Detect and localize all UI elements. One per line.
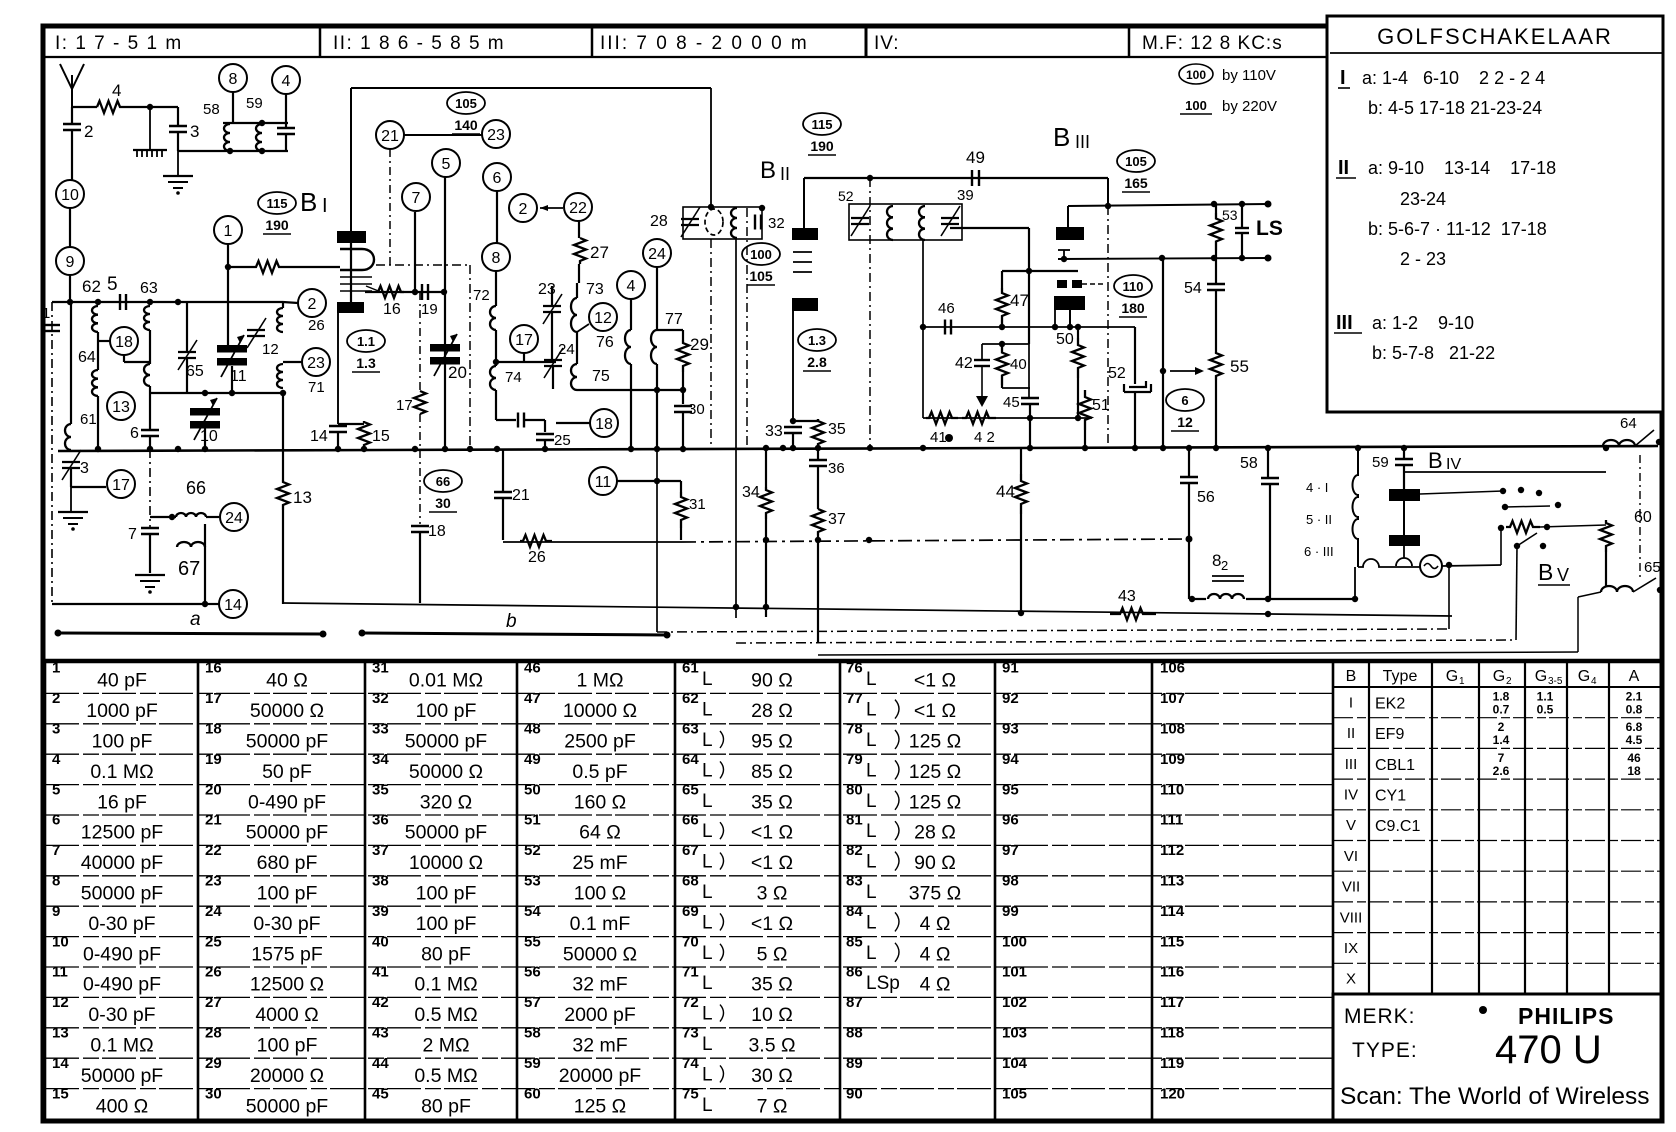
coil 77	[651, 330, 657, 364]
table column divider 0	[44, 663, 47, 1119]
bus junction	[1265, 445, 1271, 451]
svg-text:72: 72	[473, 287, 490, 304]
svg-text:400 Ω: 400 Ω	[96, 1095, 149, 1117]
svg-text:4 2: 4 2	[974, 429, 995, 446]
wire x1516 up	[1516, 546, 1517, 640]
bus junction	[680, 446, 686, 452]
wire x818	[817, 449, 819, 460]
svg-text:72: 72	[682, 994, 699, 1011]
svg-text:46: 46	[1627, 751, 1641, 765]
svg-text:L: L	[702, 1004, 713, 1025]
bus junction	[1186, 445, 1192, 451]
svg-text:55: 55	[1230, 357, 1249, 376]
variable cap 65	[178, 340, 197, 370]
wire y420	[496, 419, 516, 421]
tube BIII grid rects	[1057, 280, 1067, 288]
svg-text:14: 14	[224, 597, 242, 614]
line L1 y540	[503, 541, 682, 543]
svg-text:G: G	[1446, 668, 1458, 685]
svg-text:85: 85	[846, 933, 863, 950]
svg-text:78: 78	[846, 721, 863, 738]
svg-text:97: 97	[1002, 842, 1019, 859]
svg-text:50: 50	[524, 781, 541, 798]
svg-text:0-490 pF: 0-490 pF	[248, 791, 326, 813]
terminal 11	[589, 467, 617, 495]
svg-text:33: 33	[765, 423, 783, 440]
bus junction	[1132, 445, 1138, 451]
svg-text:50000 Ω: 50000 Ω	[563, 943, 637, 965]
svg-text:74: 74	[505, 369, 522, 386]
wire cap45 bus	[1029, 418, 1031, 449]
svg-text:L: L	[866, 730, 877, 751]
coil ift1	[705, 209, 723, 235]
svg-text:125 Ω: 125 Ω	[574, 1095, 627, 1117]
node y362	[493, 359, 499, 365]
svg-text:7: 7	[52, 842, 60, 859]
wire cap59	[1403, 446, 1405, 459]
svg-text:L: L	[702, 669, 713, 690]
svg-text:190: 190	[810, 138, 834, 154]
svg-text:30: 30	[688, 401, 705, 418]
bus junction	[920, 445, 926, 451]
bus junction	[202, 446, 208, 452]
line L6	[818, 652, 1578, 655]
svg-text:I: I	[1349, 694, 1353, 711]
svg-text:5: 5	[52, 781, 60, 798]
capacitor 6	[141, 430, 159, 436]
svg-text:75: 75	[682, 1085, 699, 1102]
svg-text:16 pF: 16 pF	[97, 791, 147, 813]
node coil59 bottom	[259, 148, 265, 154]
wire r55 dn	[1215, 380, 1217, 447]
wire y604 left	[52, 603, 205, 605]
capacitor 46	[945, 320, 951, 335]
wire to BI grid	[283, 266, 340, 268]
svg-text:B: B	[1053, 122, 1070, 152]
svg-text:4: 4	[282, 73, 291, 90]
svg-text:L: L	[702, 1064, 713, 1085]
svg-text:B: B	[1538, 559, 1553, 585]
svg-text:17: 17	[112, 477, 130, 494]
svg-text:0.7: 0.7	[1493, 702, 1510, 716]
svg-text:CY1: CY1	[1375, 787, 1406, 804]
table row line 12	[45, 1027, 1333, 1029]
svg-text:36: 36	[828, 460, 845, 477]
svg-text:0-490 pF: 0-490 pF	[83, 943, 161, 965]
svg-text:4.5: 4.5	[1626, 733, 1643, 747]
coil ift2 a	[887, 206, 893, 240]
node L2 a	[733, 604, 739, 610]
node y393 b	[229, 390, 235, 396]
variable cap 24b	[544, 348, 563, 378]
wire lamp right	[1442, 565, 1501, 566]
svg-text:0.01 MΩ: 0.01 MΩ	[409, 670, 483, 692]
svg-text:37: 37	[828, 511, 846, 528]
svg-text:40000 pF: 40000 pF	[81, 852, 163, 874]
svg-text:50000 pF: 50000 pF	[81, 883, 163, 905]
dash osc rail	[419, 292, 421, 391]
tube BII grid2 rect	[792, 298, 818, 311]
svg-text:32 mF: 32 mF	[572, 1035, 627, 1057]
tube table header line	[1333, 686, 1661, 688]
svg-text:30 Ω: 30 Ω	[751, 1065, 793, 1087]
tube BI anode	[337, 231, 366, 243]
wire cap18 down	[419, 532, 421, 603]
wire y418	[923, 417, 1092, 419]
svg-text:4 Ω: 4 Ω	[920, 974, 951, 996]
wire box y344	[982, 343, 1029, 345]
bus junction	[1213, 445, 1219, 451]
capacitor 32	[755, 215, 761, 230]
svg-text:1.1: 1.1	[357, 334, 375, 349]
terminal 24 mid	[643, 239, 671, 267]
table column divider 2	[364, 663, 367, 1119]
svg-text:119: 119	[1160, 1055, 1184, 1072]
table row line 3	[45, 753, 1333, 755]
node y393 a	[202, 390, 208, 396]
svg-text:42: 42	[955, 355, 973, 372]
dash x1108 dn	[1107, 206, 1109, 447]
node y205 c	[1265, 201, 1272, 208]
svg-text:140: 140	[454, 117, 478, 133]
wire coil61 top	[70, 302, 72, 424]
table row line 5	[45, 814, 1333, 816]
svg-text:7: 7	[1498, 751, 1505, 765]
capacitor 14	[329, 426, 347, 432]
svg-text:49: 49	[966, 148, 985, 167]
line L4 dash	[657, 629, 1449, 632]
svg-text:B: B	[1346, 668, 1357, 685]
bus junction	[147, 446, 153, 452]
svg-text:1.1: 1.1	[1537, 689, 1554, 703]
wire r47 dn	[1001, 324, 1003, 327]
coil 58	[224, 124, 230, 151]
svg-text:7: 7	[412, 190, 421, 207]
svg-text:50: 50	[1056, 331, 1074, 348]
resistor 34	[760, 487, 772, 519]
resistor 60	[1600, 520, 1612, 552]
terminal 24 left	[220, 503, 248, 531]
node coil66	[169, 514, 175, 520]
node y418 b	[1075, 415, 1081, 421]
svg-text:2: 2	[519, 201, 528, 218]
svg-text:71: 71	[682, 964, 699, 981]
node ift1 top	[708, 204, 714, 210]
tube table column 5	[1608, 663, 1610, 994]
svg-text:18: 18	[205, 721, 222, 738]
bus junction	[1401, 445, 1407, 451]
svg-text:2.8: 2.8	[807, 354, 827, 370]
header divider IV/MF	[1128, 28, 1131, 57]
svg-text:15: 15	[372, 428, 390, 445]
svg-text:<1 Ω: <1 Ω	[751, 822, 793, 844]
wire transformer bottom	[1358, 559, 1420, 567]
svg-text:4 Ω: 4 Ω	[920, 943, 951, 965]
svg-text:46: 46	[524, 660, 541, 677]
svg-text:82: 82	[846, 842, 863, 859]
svg-text:48: 48	[524, 721, 541, 738]
svg-text:20: 20	[205, 781, 222, 798]
tube BI cathode D	[340, 249, 374, 270]
svg-text:L: L	[866, 912, 877, 933]
svg-text:58: 58	[1240, 455, 1258, 472]
svg-text:45: 45	[372, 1085, 389, 1102]
svg-text:95: 95	[1002, 781, 1019, 798]
svg-text:V: V	[1346, 817, 1356, 834]
svg-text:83: 83	[846, 873, 863, 890]
wire cap21	[502, 449, 504, 492]
bus junction	[335, 446, 341, 452]
svg-text:19: 19	[205, 751, 222, 768]
capacitor 7	[141, 528, 159, 534]
resistor 41h	[926, 412, 958, 424]
svg-text:0.5: 0.5	[1537, 702, 1554, 716]
header divider III/IV	[865, 28, 868, 57]
wire x657 dn	[656, 449, 658, 632]
svg-text:65: 65	[186, 363, 204, 380]
transformer primary	[1353, 447, 1358, 567]
bus junction	[1027, 445, 1033, 451]
wire y389	[577, 389, 686, 391]
coil ift2 b	[919, 206, 925, 240]
node y292 b	[441, 289, 447, 295]
svg-text:22: 22	[205, 842, 222, 859]
wire term4	[285, 94, 287, 123]
wire cap56	[1188, 446, 1190, 477]
svg-text:10: 10	[52, 933, 69, 950]
wire tcap11 bot	[231, 366, 233, 393]
table row line 2	[45, 723, 1333, 725]
terminal 5	[432, 149, 460, 177]
svg-text:10: 10	[61, 187, 79, 204]
svg-text:20000 pF: 20000 pF	[559, 1065, 641, 1087]
bus a	[58, 633, 323, 634]
tube BII anode rect	[792, 228, 818, 240]
svg-text:115: 115	[812, 117, 833, 132]
svg-text:60: 60	[1634, 509, 1652, 526]
svg-text:21: 21	[512, 487, 530, 504]
wire bii anode	[803, 178, 805, 228]
node L1 mid	[866, 537, 872, 543]
node antenna junction	[147, 104, 153, 110]
svg-text:11: 11	[52, 964, 68, 981]
svg-text:25: 25	[205, 933, 222, 950]
svg-text:12: 12	[52, 994, 69, 1011]
node y327 c	[1052, 324, 1058, 330]
svg-text:70: 70	[682, 933, 699, 950]
svg-text:39: 39	[372, 903, 389, 920]
wire BI anode up	[350, 88, 352, 231]
capacitor 52	[1124, 381, 1151, 392]
svg-text:13: 13	[52, 1025, 69, 1042]
capacitor 59b	[277, 128, 295, 134]
svg-text:EK2: EK2	[1375, 695, 1405, 712]
wire cap58	[1267, 446, 1269, 478]
capacitor 5	[120, 294, 126, 310]
svg-text:62: 62	[82, 277, 101, 296]
svg-text:V: V	[1557, 565, 1569, 585]
tube BI stem	[350, 243, 352, 302]
svg-text:LSp: LSp	[866, 973, 900, 994]
svg-text:35: 35	[372, 781, 389, 798]
table row line 6	[45, 844, 1333, 846]
svg-text:85 Ω: 85 Ω	[751, 761, 793, 783]
svg-text:66: 66	[186, 478, 206, 498]
svg-text:1: 1	[42, 305, 50, 322]
svg-text:a: 1-2 9-10: a: 1-2 9-10	[1372, 313, 1474, 333]
svg-text:165: 165	[1124, 175, 1148, 191]
svg-text:L: L	[702, 700, 713, 721]
svg-text:90 Ω: 90 Ω	[914, 852, 956, 874]
svg-text:81: 81	[846, 812, 863, 829]
wire sw stub3	[1517, 533, 1537, 546]
wire cap3 down	[177, 107, 179, 126]
svg-text:EF9: EF9	[1375, 726, 1404, 743]
bus junction	[467, 446, 473, 452]
tube table row 4	[1333, 809, 1661, 811]
svg-text:75: 75	[592, 368, 610, 385]
table column divider 6	[994, 663, 997, 1119]
resistor 42h	[962, 412, 996, 424]
node y599 c	[1352, 596, 1358, 602]
svg-text:65: 65	[682, 781, 699, 798]
svg-text:100: 100	[1002, 933, 1027, 950]
wire cap6	[149, 393, 151, 430]
wire y271 grid	[1002, 270, 1078, 272]
svg-text:VII: VII	[1342, 879, 1360, 896]
svg-text:57: 57	[524, 994, 541, 1011]
wire cap down	[285, 123, 287, 128]
svg-text:50000 pF: 50000 pF	[246, 731, 328, 753]
table row line 13	[45, 1057, 1333, 1059]
variable cap 28	[681, 207, 700, 237]
ground 3	[70, 487, 72, 512]
oval label 105 BIII	[1117, 150, 1155, 192]
svg-text:4: 4	[112, 81, 121, 100]
svg-text:69: 69	[682, 903, 699, 920]
svg-text:2: 2	[52, 690, 60, 707]
tube table column 0	[1368, 663, 1370, 994]
tube table column 4	[1566, 663, 1568, 994]
node y327 b	[999, 324, 1005, 330]
oval label 6 12	[1166, 389, 1204, 431]
svg-text:II: II	[1338, 157, 1349, 179]
svg-text:375 Ω: 375 Ω	[909, 883, 962, 905]
wire sw stub2	[1505, 506, 1550, 507]
wire y258 speaker	[1058, 258, 1268, 259]
svg-text:99: 99	[1002, 903, 1019, 920]
svg-text:61: 61	[80, 411, 97, 428]
svg-text:2: 2	[1506, 676, 1512, 687]
svg-text:95 Ω: 95 Ω	[751, 731, 793, 753]
terminal 4 mid	[617, 271, 645, 299]
svg-text:19: 19	[421, 301, 438, 318]
wire y330 r29	[657, 329, 683, 331]
wire cath link	[338, 423, 364, 425]
dash mid rail	[149, 449, 151, 528]
svg-text:56: 56	[524, 964, 541, 981]
svg-text:115: 115	[1160, 933, 1184, 950]
wire cap7 dn	[149, 534, 151, 573]
table column divider 4	[674, 663, 677, 1119]
node y258 c	[1239, 255, 1245, 261]
terminal 14 left	[219, 590, 247, 618]
svg-text:L: L	[866, 700, 877, 721]
svg-text:18: 18	[115, 334, 133, 351]
wire coil76 dn	[630, 364, 632, 449]
wire r60 dn	[1605, 552, 1607, 586]
dash biii grid	[1082, 283, 1106, 285]
svg-text:25: 25	[554, 432, 571, 449]
bus junction	[1082, 445, 1088, 451]
wire x923	[922, 240, 924, 327]
wire x1189 dn	[1188, 540, 1190, 599]
svg-text:L: L	[866, 852, 877, 873]
svg-text:b: 5-7-8 21-22: b: 5-7-8 21-22	[1372, 343, 1495, 363]
node y258 a	[1159, 255, 1165, 261]
svg-text:18: 18	[428, 523, 446, 540]
svg-text:28: 28	[205, 1025, 222, 1042]
svg-text:24: 24	[648, 246, 666, 263]
coil 74	[490, 366, 496, 390]
svg-text:39: 39	[957, 187, 974, 204]
parts table bottom border	[43, 1119, 1661, 1124]
table row line 1	[45, 692, 1333, 694]
terminal 9	[56, 247, 84, 275]
svg-text:2 - 23: 2 - 23	[1400, 249, 1446, 269]
wire y178 anode	[804, 177, 1108, 179]
wire vc23	[551, 286, 553, 306]
tube BI grid lines	[340, 276, 372, 278]
node y604	[202, 601, 208, 607]
svg-text:32: 32	[372, 690, 389, 707]
dash shield BI right	[469, 265, 471, 449]
wire 39 out	[950, 227, 1029, 229]
node y271	[1026, 268, 1032, 274]
bus junction	[1603, 445, 1609, 451]
wire coil74 dn	[495, 390, 497, 420]
wire t24 stem	[656, 267, 658, 330]
terminal 6	[483, 163, 511, 191]
svg-text:<1 Ω: <1 Ω	[751, 913, 793, 935]
svg-text:76: 76	[596, 334, 614, 351]
svg-text:54: 54	[524, 903, 541, 920]
wire term8	[232, 92, 234, 123]
wire ift1 top	[710, 88, 712, 207]
svg-text:b: 4-5 17-18 21-23-24: b: 4-5 17-18 21-23-24	[1368, 98, 1542, 118]
svg-text:17: 17	[205, 690, 222, 707]
oval label 110 BIII	[1114, 275, 1152, 317]
oval label 105 ift1	[447, 92, 485, 134]
wire tcap10 bot	[204, 428, 206, 449]
wire term9 gap	[69, 208, 71, 247]
svg-text:50000 pF: 50000 pF	[81, 1065, 163, 1087]
node y178	[867, 175, 873, 181]
svg-text:CBL1: CBL1	[1375, 757, 1415, 774]
svg-text:111: 111	[1160, 812, 1183, 829]
node y302 a	[67, 299, 73, 305]
wire antenna cap down	[71, 107, 73, 124]
svg-text:0.5 MΩ: 0.5 MΩ	[414, 1004, 477, 1026]
node sw1	[1498, 525, 1504, 531]
svg-text:40: 40	[372, 933, 389, 950]
coil 73	[571, 298, 577, 332]
bus junction	[542, 446, 548, 452]
wire bii cath dn	[792, 311, 794, 421]
wire coil26 top	[282, 302, 284, 308]
node y344	[999, 341, 1005, 347]
capacitor 1	[44, 325, 60, 331]
